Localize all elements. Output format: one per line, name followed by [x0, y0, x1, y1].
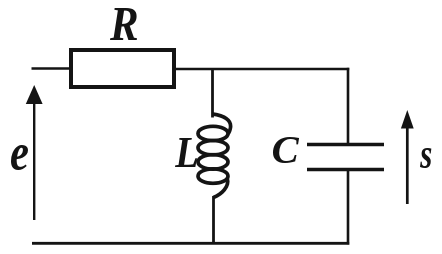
arrow s (output voltage) [401, 110, 414, 204]
label s [420, 148, 431, 168]
wire bottom rail [32, 242, 349, 245]
arrow e (input voltage) [26, 85, 43, 220]
wire top rail [174, 68, 349, 71]
wire inductor branch top [211, 68, 214, 118]
wire inductor branch bottom [212, 196, 215, 244]
label L [175, 138, 197, 167]
label R [110, 8, 137, 40]
wire top-left stub [32, 67, 71, 70]
resistor R1 [71, 50, 174, 87]
capacitor C1 [307, 145, 384, 170]
inductor L1 [198, 114, 231, 198]
wire capacitor branch bottom [347, 170, 350, 245]
label e [11, 145, 28, 170]
wire capacitor branch top [347, 68, 350, 144]
label C [273, 137, 299, 163]
